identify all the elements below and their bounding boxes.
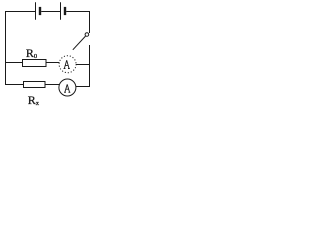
ammeter A2 (solid circle) bbox=[59, 79, 76, 96]
switch S bbox=[73, 33, 89, 50]
battery cell 1 bbox=[36, 2, 41, 19]
wire bottom branch to ammeter A2 bbox=[45, 84, 60, 86]
battery cell 2 bbox=[61, 2, 66, 19]
wire bottom branch right stub bbox=[76, 86, 90, 88]
wire bottom branch left bbox=[6, 84, 24, 86]
wire middle branch right stub bbox=[76, 64, 90, 66]
wire middle branch to ammeter A1 bbox=[46, 62, 59, 64]
wire right vertical below switch bbox=[89, 45, 91, 87]
wire top-right segment bbox=[66, 12, 89, 34]
wire between cells bbox=[41, 11, 60, 13]
resistor Rx bbox=[24, 82, 46, 88]
wire top-left and left side bbox=[6, 12, 36, 86]
wire middle branch left bbox=[6, 62, 23, 64]
resistor R0 bbox=[23, 60, 47, 67]
ammeter A1 (dashed circle) bbox=[59, 56, 76, 73]
